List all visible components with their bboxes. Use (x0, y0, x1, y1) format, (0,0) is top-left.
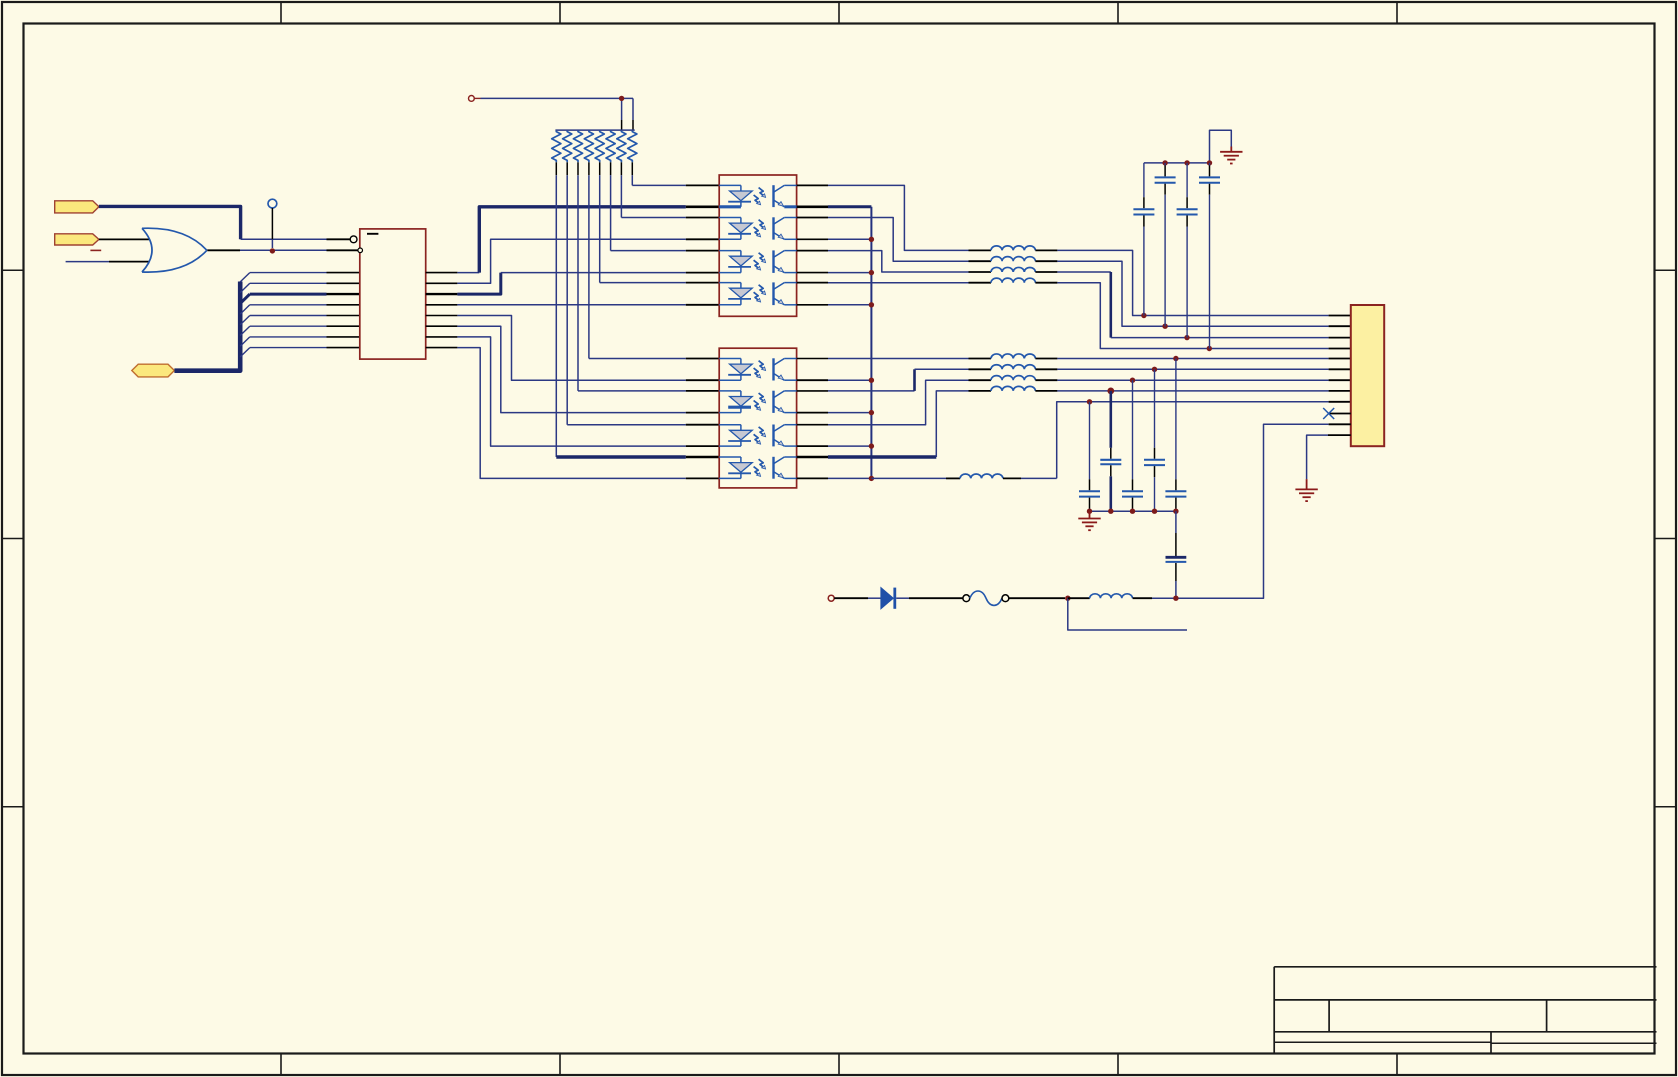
junction C9 tap (1173, 356, 1178, 361)
OR gate U4 (142, 228, 207, 272)
wire U3 ch4 collector to L8 (828, 391, 969, 457)
U3 channel 3 LED and phototransistor (719, 425, 796, 447)
wire U2 ch3 collector to L3 (828, 251, 969, 272)
U3 channel 1 LED and phototransistor (719, 358, 796, 380)
capacitor C3 (1177, 163, 1198, 338)
connector J1 (1351, 305, 1384, 446)
junction top bus (1184, 160, 1189, 165)
resistor R3 (573, 131, 582, 163)
inductor L7 (969, 376, 1058, 381)
wire R1 to opto anode (556, 162, 719, 457)
wire L8 to connector pin 8 (1057, 390, 1350, 392)
resistor R4 (584, 131, 593, 163)
junction C6 tap (1107, 388, 1114, 395)
junction on OR output node (270, 248, 275, 253)
U3 right pin stubs (797, 359, 828, 479)
inductor L6 (969, 365, 1058, 370)
wire port P1 to U1 pin 1 (99, 206, 350, 239)
optocoupler U2 (719, 175, 796, 316)
junction on pull-up node (619, 96, 624, 101)
capacitor C4 (1199, 163, 1220, 349)
resistor R5 (595, 131, 604, 163)
wire F1 to L10 (1009, 597, 1065, 599)
capacitor C7 (1122, 380, 1143, 511)
U1 right pin stubs (426, 273, 458, 348)
resistor R2 (563, 131, 572, 163)
junction C7 tap (1130, 378, 1135, 383)
wire U3 ch1 collector to L5 (828, 358, 969, 360)
bus from port P3 (174, 282, 240, 371)
wire J1 pin 11 to LC output (1178, 424, 1351, 598)
junction C5 tap (1087, 399, 1092, 404)
U2 channel 2 LED and phototransistor (719, 217, 796, 239)
wire R2 to opto anode (567, 162, 719, 424)
junction ground bus (1108, 509, 1113, 514)
inductor L9 (871, 474, 1056, 478)
wire L6 to connector pin 6 (1057, 368, 1350, 370)
junction top bus (1207, 160, 1212, 165)
wire OR gate output to U1 pin 2 (207, 249, 357, 251)
wire R5 to opto anode (600, 162, 720, 282)
inductor L10 (1068, 594, 1178, 598)
wire L1 to connector pin 1 (1057, 250, 1350, 315)
inductor L1 (969, 246, 1058, 251)
capacitor C1 (1133, 163, 1154, 316)
resistor network top bus wire (555, 129, 634, 131)
capacitor C9 (1165, 359, 1186, 512)
wire L2 to connector pin 2 (1057, 261, 1350, 326)
wire U1 pin 3 to U2 channel 3 cathode (457, 273, 719, 295)
junction emitter bus (869, 476, 874, 481)
U3 channel 4 LED and phototransistor (719, 457, 796, 479)
wire T3 to D1 (834, 597, 880, 599)
wire D1 to F1 (896, 597, 963, 599)
junction C4 tap (1207, 346, 1212, 351)
inductor L8 (969, 386, 1058, 391)
junction top bus (1162, 160, 1167, 165)
junction emitter bus (869, 237, 874, 242)
inductor L4 (969, 278, 1058, 283)
terminal T2 (469, 96, 481, 102)
junction emitter bus (869, 378, 874, 383)
junction L10 output (1173, 596, 1178, 601)
resistor R7 (617, 131, 626, 163)
capacitor C8 (1144, 369, 1165, 511)
junction C2 tap (1162, 324, 1167, 329)
wire U2 ch4 collector to L4 (828, 282, 969, 284)
junction fuse output (1065, 596, 1070, 601)
wire top capacitor ground bus (1144, 130, 1231, 163)
capacitor C10 (1166, 511, 1187, 598)
port P3 (132, 364, 175, 377)
port P2 (55, 234, 101, 251)
terminal T1 no-connect circle (268, 199, 277, 248)
wire U1 pin 8 to U3 channel 4 cathode (457, 348, 719, 479)
wire U1 pin 7 to U3 channel 3 cathode (457, 337, 719, 446)
wire R8 to opto anode (632, 162, 719, 185)
ground GND3 (1295, 479, 1317, 501)
U2 channel 3 LED and phototransistor (719, 250, 796, 273)
junction ground bus (1173, 509, 1178, 514)
wire U1 pin 5 to U3 channel 1 cathode (457, 316, 719, 381)
inductor L3 (969, 267, 1058, 272)
diode D1 (881, 588, 895, 609)
ground GND2 (1078, 511, 1100, 530)
capacitor C2 (1155, 163, 1176, 326)
wire R7 to opto anode (621, 162, 719, 217)
junction C1 tap (1141, 313, 1146, 318)
optocoupler U3 (719, 348, 796, 488)
wire T2 to resistor network top (481, 98, 634, 130)
wire port P2 to OR gate input 1 (99, 238, 150, 240)
junction C3 tap (1184, 335, 1189, 340)
wire U1 pin 2 to U2 channel 2 cathode (457, 239, 719, 283)
wire L5 to connector pin 5 (1057, 358, 1350, 360)
wire J1 pin 12 to ground (1307, 435, 1351, 479)
wire U1 pin 6 to U3 channel 2 cathode (457, 326, 719, 412)
junction ground bus (1130, 509, 1135, 514)
resistor R6 (606, 131, 615, 163)
wire middle capacitor ground bus (1090, 510, 1176, 512)
bus entry diagonals and wires to U1 left pins (240, 273, 360, 357)
ground GND1 (1220, 147, 1242, 164)
U2 right pin stubs (797, 185, 828, 304)
wire U3 ch3 collector to L7 (828, 380, 969, 425)
U2 channel 1 LED and phototransistor (719, 185, 796, 207)
resistor R1 (552, 131, 561, 163)
junction emitter bus (869, 302, 874, 307)
wire L3 to connector pin 3 (1057, 272, 1350, 338)
terminal T3 (828, 595, 834, 601)
wire U1 pin 4 to U2 channel 4 cathode (457, 304, 719, 306)
wire L7 to connector pin 7 (1057, 379, 1350, 381)
junction emitter bus (869, 410, 874, 415)
wire stub below fuse output (1068, 598, 1187, 630)
port P1 (55, 201, 99, 213)
wire U2 ch2 collector to L2 (828, 218, 969, 262)
wire OR gate input 2 (66, 261, 150, 263)
fuse F1 (963, 591, 1009, 605)
wire U2 ch1 collector to L1 (828, 185, 969, 250)
wire R3 to opto anode (578, 162, 719, 391)
wire U3 ch2 collector to L6 (828, 369, 969, 391)
junction C8 tap (1152, 367, 1157, 372)
wire emitter common bus (828, 207, 871, 479)
capacitor C6 (1100, 391, 1121, 511)
capacitor C5 (1079, 402, 1100, 511)
wire R4 to opto anode (589, 162, 719, 358)
junction ground bus (1087, 509, 1092, 514)
wire L9 to connector pin 9 (1057, 402, 1351, 479)
IC U1 (350, 229, 425, 359)
inductor L2 (969, 257, 1058, 262)
junction ground bus (1152, 509, 1157, 514)
J1 pin 10 no-connect cross (1323, 408, 1351, 419)
wire R6 to opto anode (611, 162, 720, 250)
junction emitter bus (869, 443, 874, 448)
inductor L5 (969, 354, 1058, 359)
wire U1 pin 1 to U2 channel 1 cathode (457, 207, 719, 273)
junction emitter bus (869, 270, 874, 275)
U2 channel 4 LED and phototransistor (719, 282, 796, 305)
U3 channel 2 LED and phototransistor (719, 391, 796, 413)
wire L4 to connector pin 4 (1057, 283, 1350, 349)
resistor R8 (628, 131, 637, 163)
